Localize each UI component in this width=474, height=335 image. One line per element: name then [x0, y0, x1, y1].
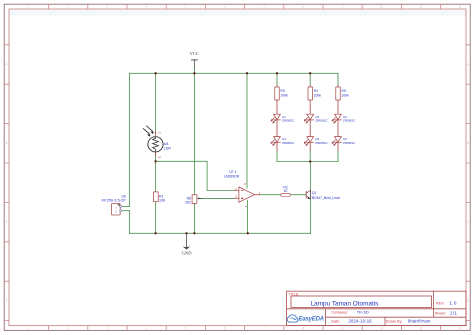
wire LED branch 1 vertical: [276, 73, 278, 161]
svg-text:Date:: Date:: [331, 319, 340, 323]
wire potentiometer wiper to op-amp pin 3: [199, 197, 234, 199]
svg-text:100k: 100k: [314, 93, 322, 97]
svg-text:R4: R4: [314, 89, 318, 93]
svg-text:KF350-3.5-2P: KF350-3.5-2P: [102, 198, 127, 202]
svg-text:D: D: [467, 299, 469, 302]
LED U4: [271, 137, 281, 146]
label U3 / ZIR05SC: [343, 137, 356, 145]
svg-text:U7.1: U7.1: [229, 170, 237, 174]
wire op-amp pin 8 to top rail: [246, 73, 248, 188]
svg-text:TITLE:: TITLE:: [289, 292, 299, 296]
svg-text:ZIR05SC: ZIR05SC: [282, 119, 295, 123]
svg-text:C: C: [6, 221, 8, 224]
photoresistor U8 (LDR): [143, 126, 163, 159]
label R6 / 2K2: [185, 197, 191, 205]
svg-text:TK-SD: TK-SD: [357, 310, 369, 315]
svg-text:10K: 10K: [159, 198, 166, 202]
wire VCC drop to potentiometer top: [193, 68, 195, 195]
wire left branch lower (connector pin 2 to bottom rail): [129, 211, 131, 234]
label R2 / 1K: [283, 185, 288, 192]
svg-text:1.0: 1.0: [449, 301, 456, 306]
label R3 / 100k: [280, 89, 288, 98]
svg-text:R5: R5: [341, 89, 345, 93]
svg-text:Company:: Company:: [331, 310, 347, 314]
svg-text:VCC: VCC: [190, 51, 199, 56]
label R1 / 10K: [159, 194, 166, 202]
label R4 / 100k: [314, 89, 322, 98]
wire transistor emitter to bottom rail: [309, 199, 311, 233]
svg-text:Drawn By:: Drawn By:: [386, 319, 403, 323]
wire LED branch 3 vertical: [337, 73, 339, 161]
svg-text:ZIR05SC: ZIR05SC: [343, 141, 356, 145]
resistor R1: [154, 192, 159, 202]
wire potentiometer bottom to bottom rail: [193, 204, 195, 234]
ground GND: [182, 234, 193, 256]
red pin stubs on LED branches: [277, 86, 338, 151]
svg-text:khairilirvan: khairilirvan: [408, 319, 431, 324]
wire R1 bottom to bottom rail: [155, 202, 157, 234]
svg-text:D: D: [6, 299, 8, 302]
svg-text:2024-10-16: 2024-10-16: [349, 319, 373, 324]
wire left branch upper (top rail to connector pin 1): [129, 73, 131, 206]
node junction dots: [154, 72, 311, 234]
svg-text:Sheet:: Sheet:: [435, 312, 446, 316]
wire op-amp output to R2: [259, 194, 281, 196]
LED U5: [304, 114, 314, 123]
svg-text:+2: +2: [158, 155, 162, 159]
resistor R5: [336, 87, 340, 100]
wire bottom ground rail: [130, 232, 311, 234]
svg-text:1K: 1K: [284, 189, 289, 193]
potentiometer R6: [192, 195, 201, 204]
EasyEDA logo: [287, 315, 324, 323]
svg-text:LDR: LDR: [164, 146, 172, 150]
label U9 / KF350-3.5-2P: [102, 195, 127, 203]
label U7.1 / LM393DR: [224, 170, 240, 179]
resistor R4: [308, 87, 312, 100]
svg-text:C: C: [467, 221, 469, 224]
svg-text:ZIR05SC: ZIR05SC: [315, 119, 328, 123]
connector U9 KF350-3.5-2P: [111, 204, 121, 216]
transistor Q1 BC547: [306, 190, 310, 199]
svg-text:2K2: 2K2: [185, 200, 191, 204]
svg-text:BC547_Bent_Lead: BC547_Bent_Lead: [312, 196, 340, 200]
wire op-amp pin 4 to bottom rail: [246, 200, 248, 233]
wire LDR branch from top rail: [155, 73, 157, 134]
label U6 / ZIR05SC: [315, 137, 328, 145]
svg-text:R3: R3: [280, 89, 284, 93]
label U2 / ZIR05SC: [343, 115, 356, 123]
power flag VCC: [190, 51, 199, 68]
label R5 / 100k: [341, 89, 349, 98]
svg-text:Q1: Q1: [312, 191, 317, 195]
svg-text:ZIR05SC: ZIR05SC: [315, 141, 328, 145]
wire LED bottom rail: [277, 161, 338, 163]
svg-text:U8: U8: [164, 142, 169, 146]
title block (decorative): [287, 291, 466, 325]
label U5 / ZIR05SC: [315, 115, 328, 123]
svg-text:100k: 100k: [280, 93, 288, 97]
wire top VCC rail: [130, 72, 338, 74]
LED U3: [332, 137, 342, 146]
svg-text:ZIR05SC: ZIR05SC: [343, 119, 356, 123]
svg-text:EasyEDA: EasyEDA: [299, 317, 324, 323]
svg-text:LM393DR: LM393DR: [224, 175, 240, 179]
svg-text:ZIR05SC: ZIR05SC: [282, 141, 295, 145]
label U4 / ZIR05SC: [282, 137, 295, 145]
wire LED branch 2 vertical: [309, 73, 311, 161]
LED U2: [332, 114, 342, 123]
svg-text:Lampu Taman Otomatis: Lampu Taman Otomatis: [311, 300, 379, 307]
label U8 / LDR: [164, 142, 172, 151]
svg-text:100k: 100k: [341, 93, 349, 97]
wire R2 to transistor base: [291, 194, 306, 196]
resistor R3: [275, 87, 279, 100]
resistor R2: [281, 194, 291, 197]
LED U1: [271, 114, 281, 123]
label U1 / ZIR05SC: [282, 115, 295, 123]
LED U6: [304, 137, 314, 146]
wire connector pin 1: [122, 206, 130, 208]
wire connector pin 2: [122, 210, 130, 212]
op-amp U7.1 LM393: [234, 182, 261, 208]
label Q1 / BC547_Bent_Lead: [312, 191, 340, 200]
svg-text:GND: GND: [182, 250, 193, 255]
wire transistor collector to LED rail: [309, 162, 311, 191]
svg-text:+1: +1: [158, 131, 162, 135]
svg-text:REV:: REV:: [436, 301, 445, 305]
wire LDR bottom to R1 top: [155, 152, 157, 192]
svg-text:1/1: 1/1: [450, 311, 457, 316]
wire node LDR junction to op-amp pin 2: [156, 161, 235, 190]
